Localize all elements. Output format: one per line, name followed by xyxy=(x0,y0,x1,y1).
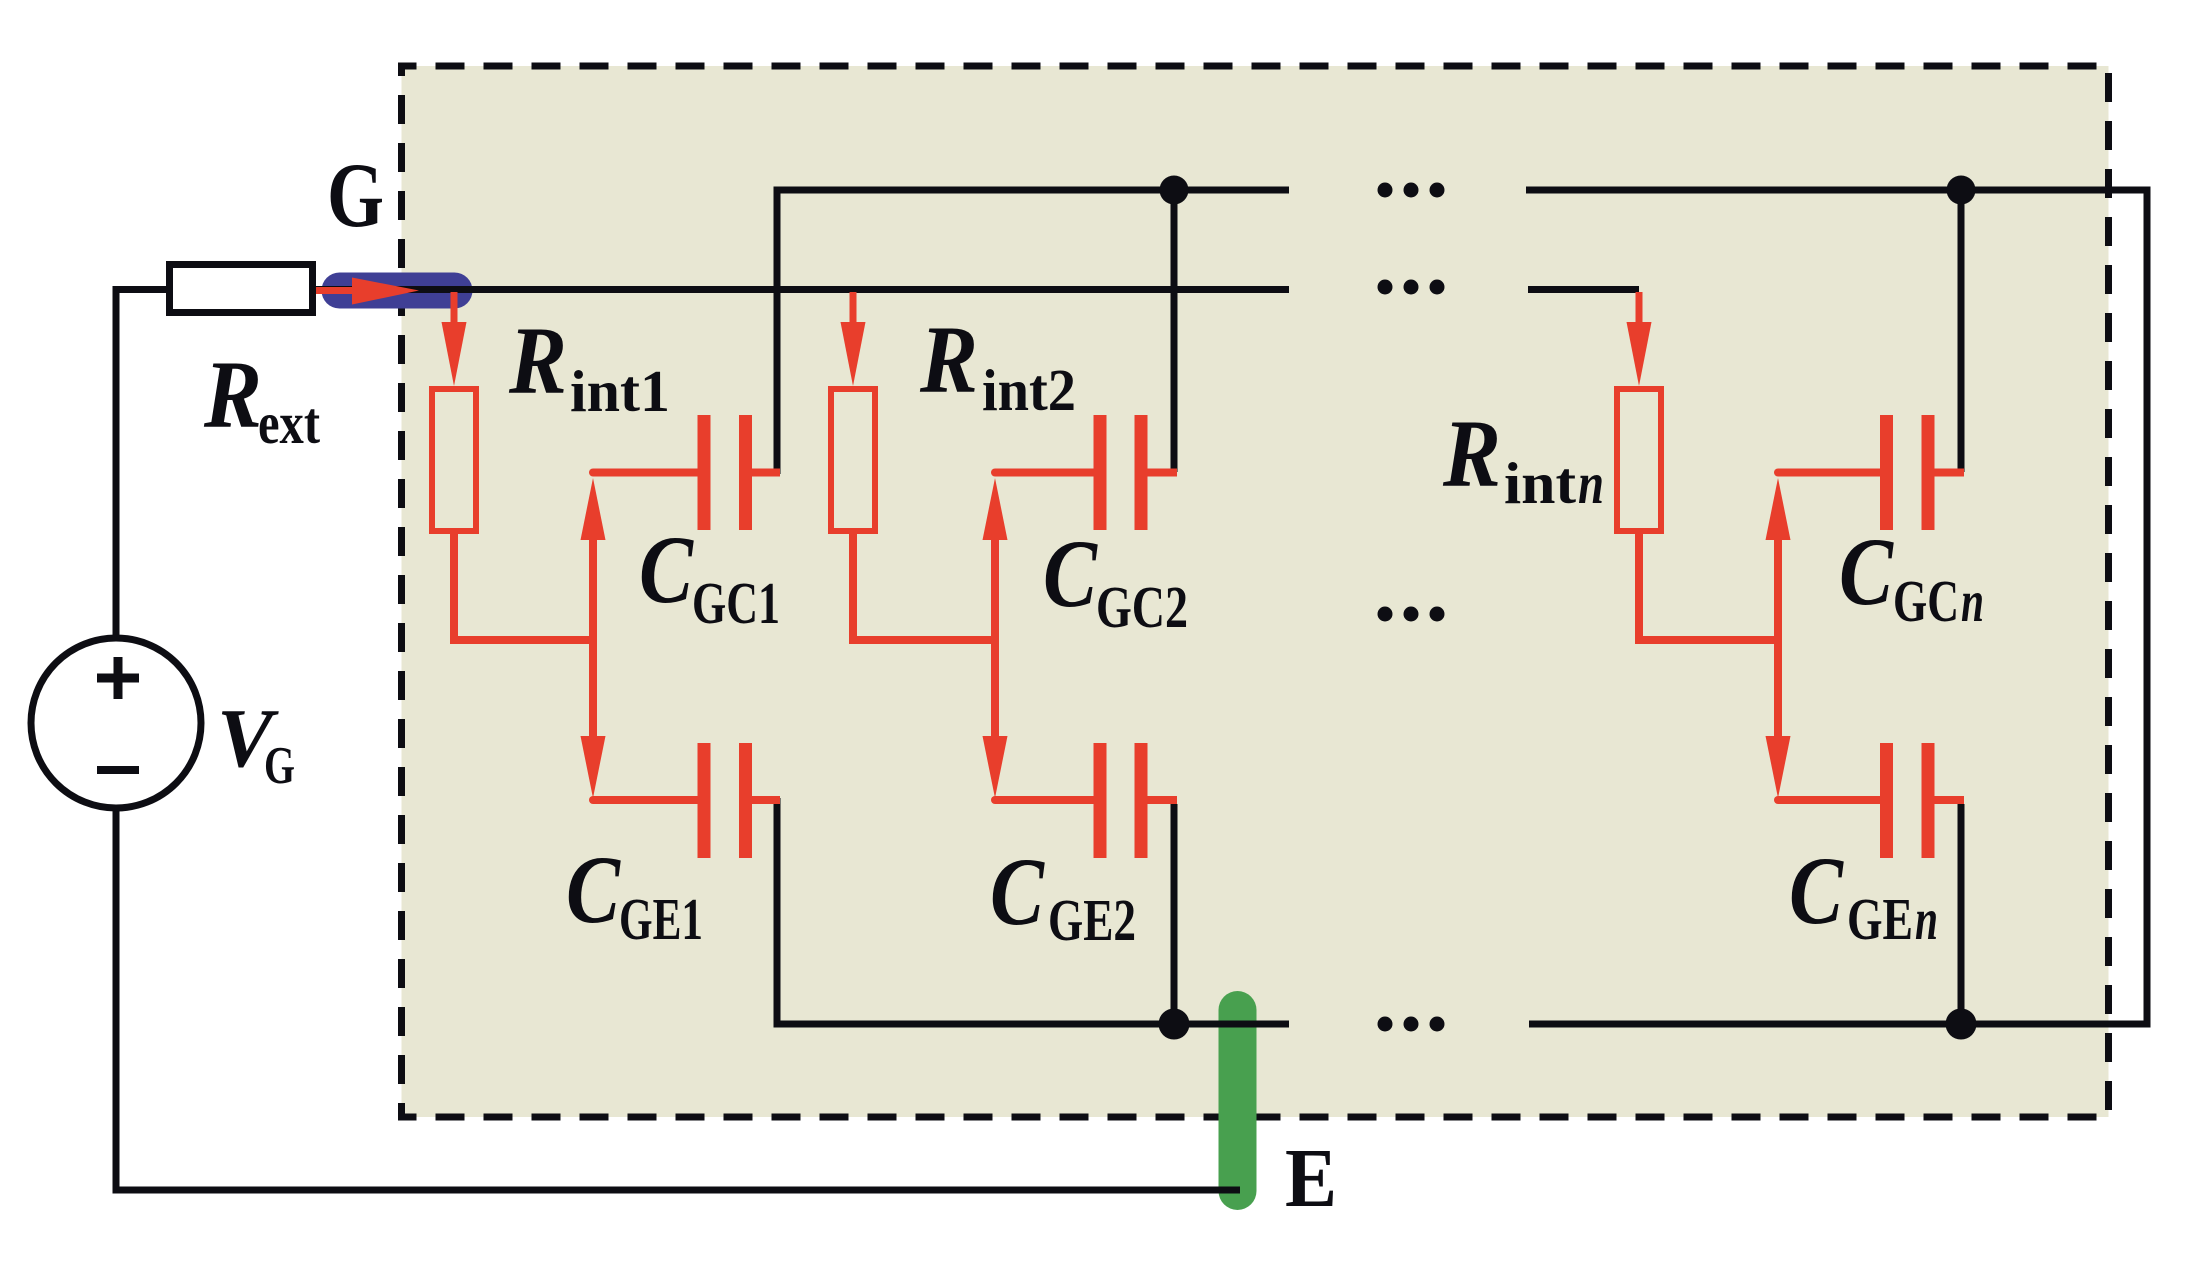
svg-text:n: n xyxy=(1915,886,1938,952)
svg-text:GC1: GC1 xyxy=(692,570,780,636)
svg-text:C: C xyxy=(566,836,621,943)
svg-text:ext: ext xyxy=(258,390,320,456)
svg-text:R: R xyxy=(508,307,567,414)
svg-text:C: C xyxy=(990,838,1045,945)
svg-text:GE: GE xyxy=(1847,886,1913,952)
svg-text:C: C xyxy=(1789,837,1844,944)
svg-text:C: C xyxy=(1839,518,1894,625)
svg-text:int1: int1 xyxy=(570,358,670,424)
svg-text:GE1: GE1 xyxy=(619,886,703,952)
svg-text:GE2: GE2 xyxy=(1048,887,1136,953)
svg-text:n: n xyxy=(1578,450,1604,516)
svg-text:int2: int2 xyxy=(982,357,1076,423)
svg-text:E: E xyxy=(1285,1132,1337,1225)
svg-text:C: C xyxy=(1043,520,1098,627)
svg-text:R: R xyxy=(203,341,262,448)
svg-text:G: G xyxy=(327,144,384,246)
svg-text:R: R xyxy=(919,306,978,413)
svg-text:R: R xyxy=(1442,400,1501,507)
svg-text:GC: GC xyxy=(1893,568,1959,634)
svg-text:G: G xyxy=(264,737,295,795)
svg-text:C: C xyxy=(639,516,694,623)
svg-text:int: int xyxy=(1504,450,1576,516)
svg-text:n: n xyxy=(1961,568,1984,634)
svg-text:GC2: GC2 xyxy=(1096,574,1188,640)
